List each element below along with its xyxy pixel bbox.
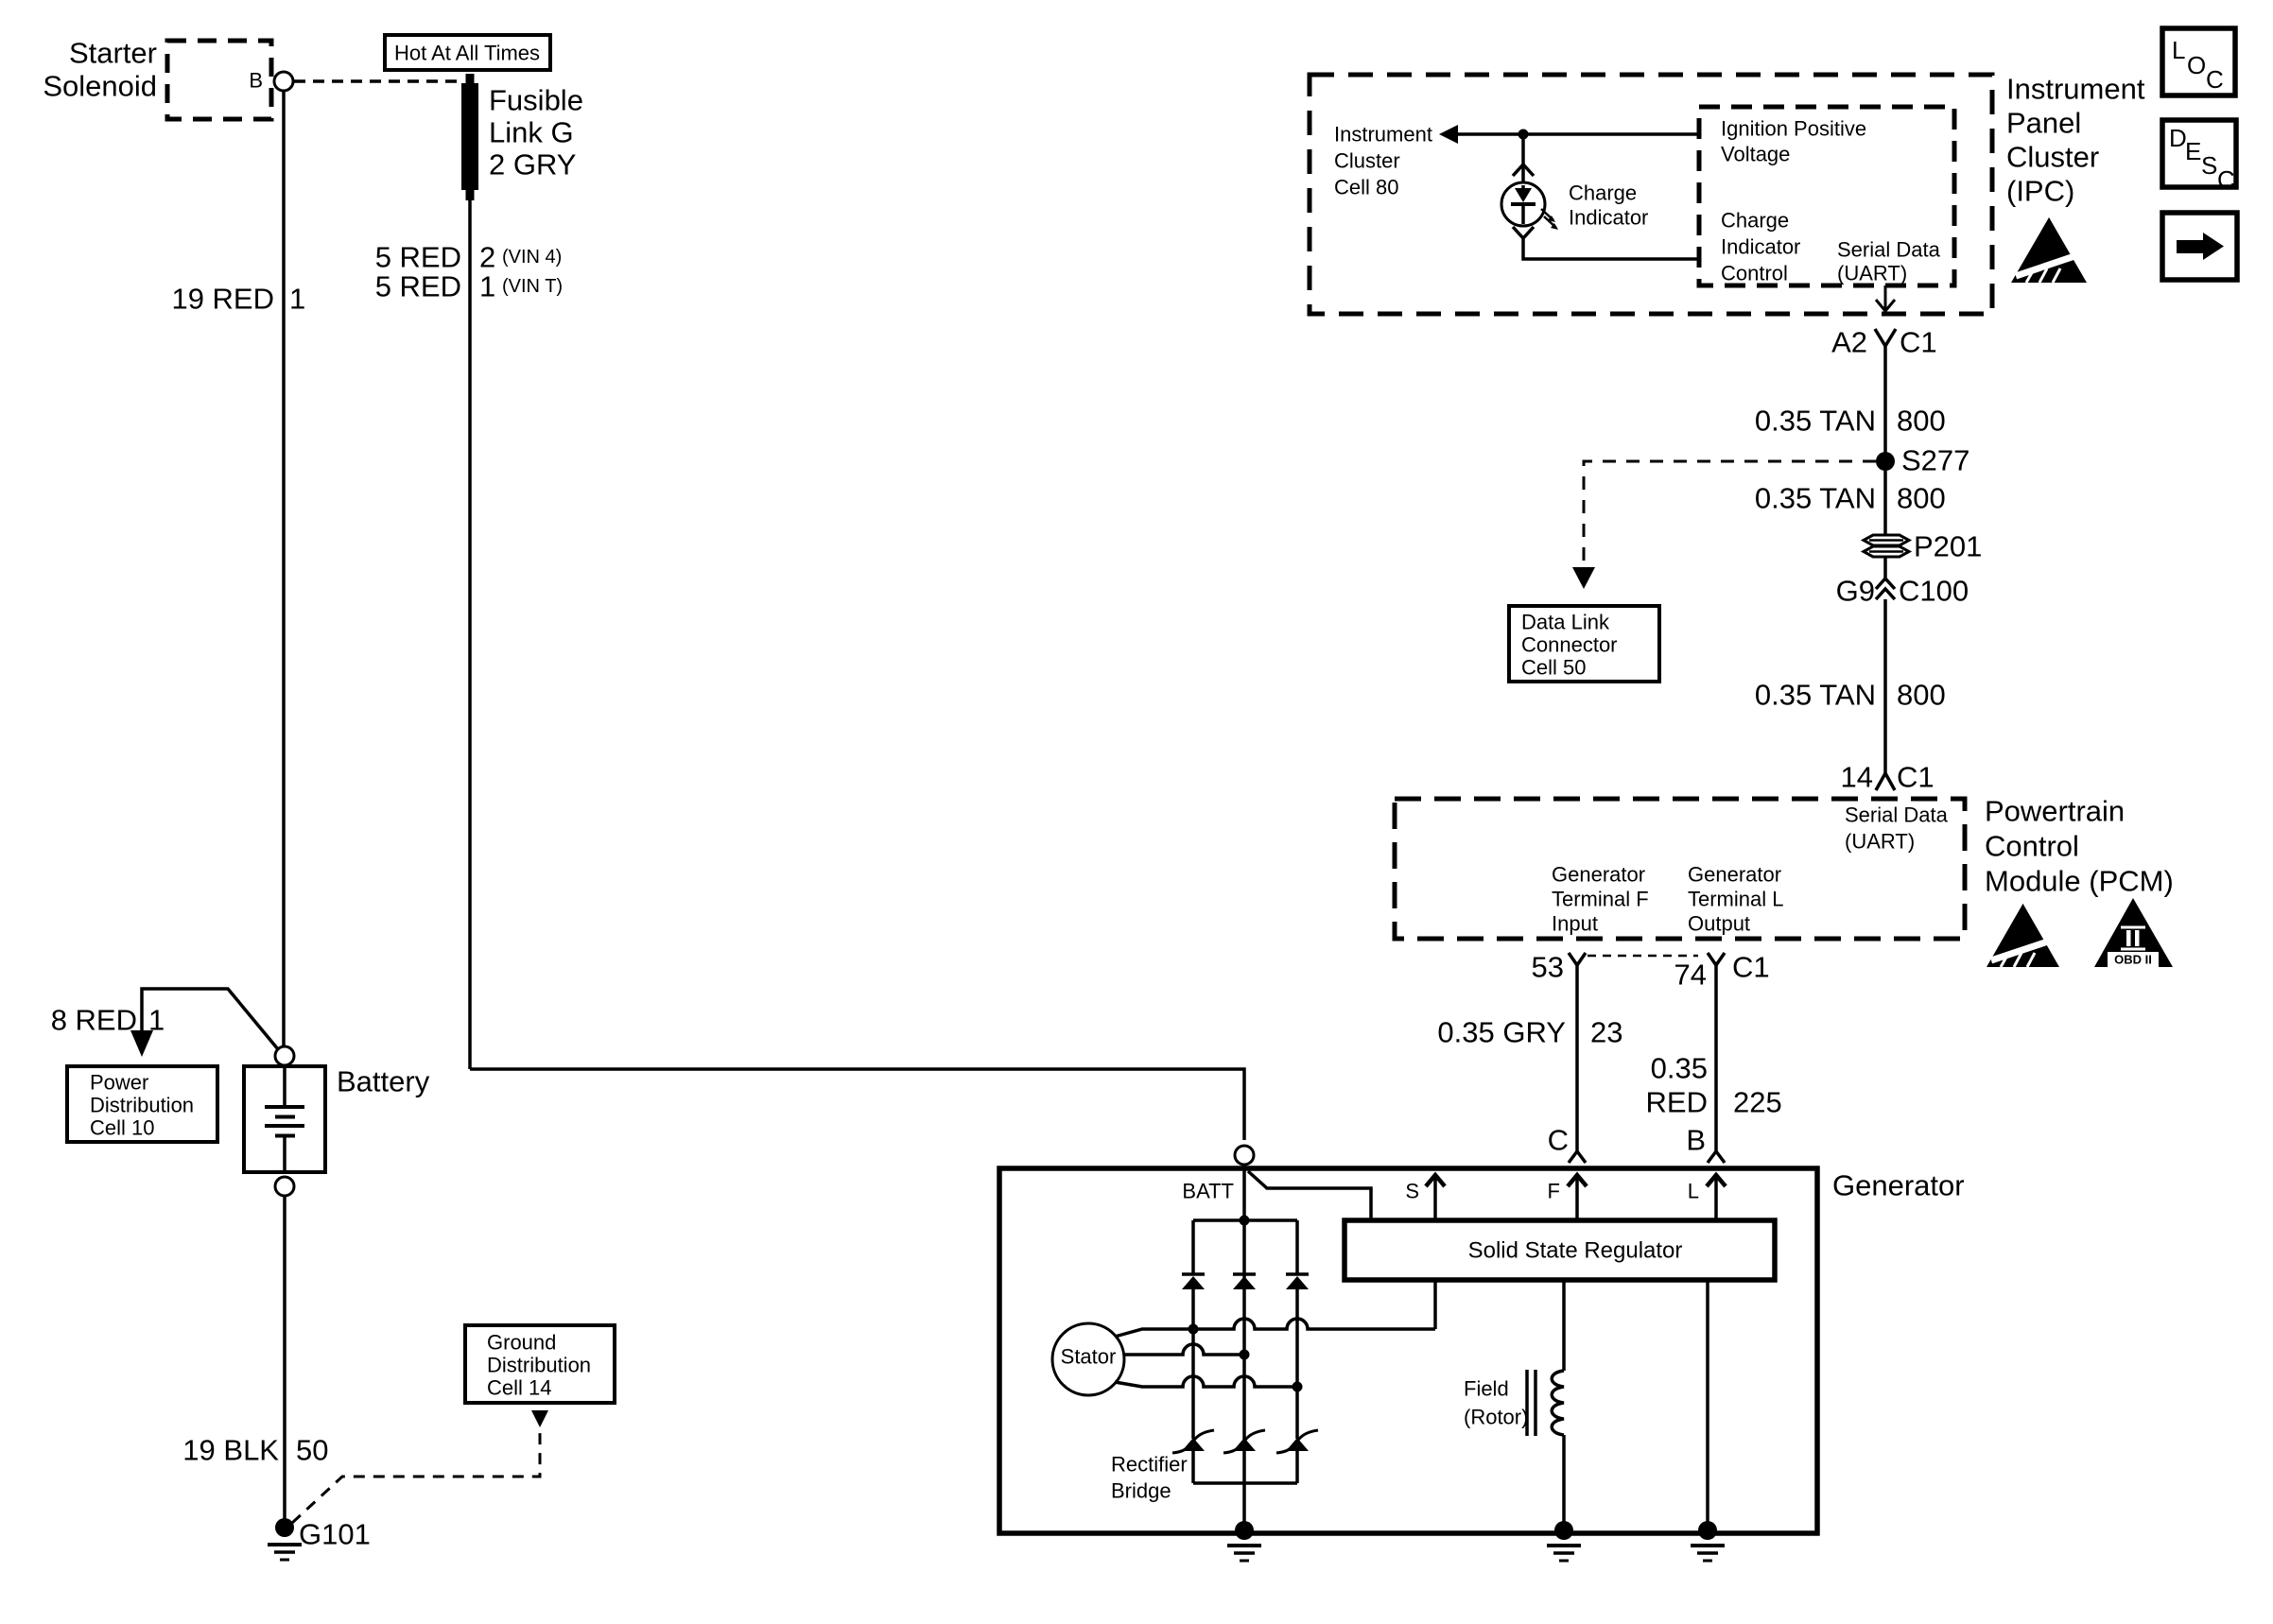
svg-text:Solenoid: Solenoid (43, 70, 157, 103)
LOC box (2162, 28, 2235, 95)
svg-text:A2: A2 (1831, 326, 1867, 359)
dashed connector body line C1 (1588, 955, 1698, 958)
label 53 (1532, 951, 1564, 984)
svg-text:Indicator: Indicator (1721, 235, 1800, 259)
arrow data link connector reference (1572, 567, 1595, 589)
svg-text:Distribution: Distribution (487, 1354, 591, 1377)
svg-text:Serial Data: Serial Data (1837, 238, 1941, 262)
svg-text:Charge: Charge (1721, 209, 1789, 233)
svg-text:S: S (2201, 151, 2217, 180)
wire F 0.35 GRY 23 (1575, 965, 1579, 1151)
svg-text:Ground: Ground (487, 1331, 556, 1355)
ground at field coil (1547, 1521, 1581, 1561)
svg-text:Cell 10: Cell 10 (90, 1116, 154, 1140)
svg-text:Rectifier: Rectifier (1111, 1453, 1188, 1477)
svg-text:5 RED: 5 RED (375, 241, 461, 274)
svg-text:(VIN T): (VIN T) (502, 276, 563, 297)
svg-text:Bridge: Bridge (1111, 1479, 1171, 1503)
dashed wire G101 to ground distribution (292, 1429, 540, 1523)
svg-text:C: C (2217, 165, 2235, 194)
svg-text:Output: Output (1688, 912, 1750, 936)
zener diode Z1 (1172, 1430, 1214, 1453)
svg-text:800: 800 (1897, 405, 1946, 438)
stator (1052, 1323, 1124, 1395)
connector G9 C100 (1876, 579, 1895, 599)
zener diode Z3 (1276, 1430, 1318, 1453)
label 74 C1 (1674, 951, 1770, 992)
junction dot BATT top bus (1240, 1216, 1250, 1226)
svg-text:Serial Data: Serial Data (1845, 803, 1949, 827)
svg-text:Panel: Panel (2006, 107, 2081, 140)
ESD symbol PCM (1987, 904, 2059, 967)
field rotor coil (1527, 1370, 1564, 1436)
ground at rectifier (1227, 1521, 1261, 1561)
terminal arrow S (1426, 1175, 1445, 1221)
svg-text:Field: Field (1464, 1377, 1509, 1401)
label Charge Indicator Control (1721, 209, 1800, 285)
svg-text:C: C (1548, 1124, 1569, 1157)
svg-text:D: D (2169, 124, 2187, 152)
terminal arrow F (1568, 1175, 1587, 1221)
next page arrow box (2162, 213, 2237, 280)
svg-text:225: 225 (1733, 1086, 1782, 1119)
S sense wire (1433, 1280, 1437, 1329)
label Ignition Positive Voltage (1721, 117, 1866, 166)
zener diode Z2 (1223, 1430, 1265, 1453)
svg-text:Link G: Link G (489, 116, 574, 149)
svg-text:Cluster: Cluster (2006, 141, 2099, 174)
svg-text:Module (PCM): Module (PCM) (1985, 865, 2174, 898)
arrow to instrument cluster (1439, 125, 1458, 144)
label 14 C1 (1841, 761, 1935, 794)
wire fusible link down (468, 199, 472, 1069)
label Fusible Link G 2 GRY (489, 84, 583, 181)
svg-text:B: B (1686, 1124, 1706, 1157)
wire junction to charge indicator (1521, 134, 1525, 181)
svg-text:C1: C1 (1897, 761, 1935, 794)
svg-text:O: O (2187, 51, 2206, 79)
label Generator Terminal F Input (1552, 863, 1649, 936)
svg-text:19 RED: 19 RED (171, 283, 274, 316)
svg-text:23: 23 (1590, 1016, 1622, 1049)
svg-text:Fusible: Fusible (489, 84, 583, 117)
splice S277 (1876, 452, 1895, 471)
svg-text:Terminal L: Terminal L (1688, 888, 1783, 911)
phase A wire (1115, 1319, 1435, 1337)
svg-text:RED: RED (1646, 1086, 1708, 1119)
label Generator (1832, 1169, 1965, 1202)
wire S277 to P201 (1883, 471, 1887, 535)
wire regulator to field coil (1562, 1280, 1566, 1371)
wire B to battery (282, 92, 286, 1045)
svg-text:B: B (249, 69, 263, 93)
svg-text:0.35 GRY: 0.35 GRY (1437, 1016, 1566, 1049)
svg-text:Terminal F: Terminal F (1552, 888, 1649, 911)
serial data exit arrow (1876, 285, 1895, 311)
battery positive terminal circle (275, 1046, 294, 1065)
svg-text:0.35 TAN: 0.35 TAN (1755, 482, 1876, 515)
svg-text:53: 53 (1532, 951, 1564, 984)
svg-text:Power: Power (90, 1071, 148, 1095)
svg-text:P201: P201 (1914, 530, 1982, 563)
svg-text:0.35 TAN: 0.35 TAN (1755, 405, 1876, 438)
ground G101 (268, 1518, 302, 1560)
label 0.35 RED 225 (1646, 1052, 1782, 1119)
wire 8 RED tap to power distribution (142, 989, 278, 1049)
svg-text:800: 800 (1897, 679, 1946, 712)
label G101 (299, 1518, 371, 1551)
label 19 RED 1 (171, 283, 305, 316)
IPC dashed box (1310, 75, 1992, 314)
connector C at generator F (1569, 1151, 1586, 1163)
svg-text:Generator: Generator (1832, 1169, 1965, 1202)
svg-text:C1: C1 (1900, 326, 1937, 359)
label F (1548, 1180, 1560, 1203)
generator BATT terminal circle (1235, 1146, 1254, 1165)
svg-text:Input: Input (1552, 912, 1598, 936)
svg-text:BATT: BATT (1182, 1180, 1234, 1203)
label Field (Rotor) (1464, 1377, 1528, 1429)
junction dot IPC (1518, 130, 1529, 140)
arrow into power distribution box (130, 1030, 153, 1057)
phase B wire (1124, 1344, 1244, 1355)
DESC box (2162, 120, 2236, 194)
svg-text:Data Link: Data Link (1521, 611, 1610, 634)
wire serial data A2 to S277 (1883, 346, 1887, 454)
svg-text:Battery: Battery (337, 1065, 430, 1098)
connector 74 C1 (Y) (1708, 953, 1725, 965)
svg-text:Distribution: Distribution (90, 1094, 194, 1117)
svg-text:Ignition Positive: Ignition Positive (1721, 117, 1866, 141)
label Charge Indicator (1569, 181, 1648, 230)
svg-text:Instrument: Instrument (2006, 73, 2145, 106)
svg-text:(Rotor): (Rotor) (1464, 1406, 1528, 1429)
label BATT (1182, 1180, 1234, 1203)
svg-text:L: L (2172, 36, 2185, 64)
svg-text:Indicator: Indicator (1569, 206, 1648, 230)
IPC inner connector dashed box (1699, 107, 1954, 285)
svg-text:Powertrain: Powertrain (1985, 795, 2125, 828)
wire P201 to C100 (1883, 557, 1887, 579)
svg-text:C100: C100 (1899, 575, 1969, 608)
diode D3 (1286, 1274, 1309, 1289)
svg-text:Instrument: Instrument (1334, 123, 1432, 147)
junction dot phase C (1293, 1382, 1303, 1392)
svg-text:G101: G101 (299, 1518, 371, 1551)
label Serial Data (UART) PCM (1845, 803, 1949, 854)
diode D1 (1182, 1274, 1205, 1289)
svg-text:1: 1 (479, 270, 495, 303)
svg-text:Cell 14: Cell 14 (487, 1376, 551, 1400)
battery negative terminal circle (275, 1177, 294, 1196)
svg-text:Charge: Charge (1569, 181, 1637, 205)
label S (1405, 1180, 1419, 1203)
terminal circle B (274, 72, 293, 91)
wire L 0.35 RED 225 (1714, 965, 1718, 1151)
svg-text:(UART): (UART) (1837, 262, 1907, 285)
svg-text:Hot At All Times: Hot At All Times (394, 42, 540, 65)
svg-text:OBD II: OBD II (2114, 953, 2152, 967)
svg-text:(UART): (UART) (1845, 830, 1915, 854)
terminal arrow L (1707, 1175, 1726, 1221)
wire battery to G101 (283, 1197, 286, 1522)
svg-text:800: 800 (1897, 482, 1946, 515)
wire C100 to PCM 14 (1883, 599, 1887, 773)
svg-text:Cell 80: Cell 80 (1334, 176, 1398, 199)
starter solenoid dashed box (167, 41, 271, 119)
rectifier left leg wire (1191, 1220, 1195, 1483)
Hot At All Times box (385, 35, 550, 70)
svg-text:F: F (1548, 1180, 1560, 1203)
phase C wire (1115, 1376, 1297, 1387)
svg-text:(VIN 4): (VIN 4) (502, 247, 562, 268)
ground at L (1691, 1521, 1725, 1561)
connector 14 C1 (1876, 773, 1895, 790)
connector P201 (1864, 535, 1909, 557)
ESD symbol IPC (2011, 217, 2087, 283)
solid state regulator box U1 (1345, 1220, 1775, 1280)
svg-text:C1: C1 (1732, 951, 1770, 984)
svg-text:Starter: Starter (69, 37, 157, 70)
label G9 C100 (1836, 575, 1969, 608)
wire field coil to ground (1562, 1435, 1566, 1528)
PCM dashed box (1395, 799, 1965, 939)
label P201 (1914, 530, 1982, 563)
svg-text:19 BLK: 19 BLK (182, 1434, 279, 1467)
svg-text:1: 1 (289, 283, 305, 316)
connector A2 C1 (1875, 329, 1896, 346)
label 5 RED 1 (VIN T) (375, 270, 563, 303)
label 8 RED 1 (51, 1004, 165, 1037)
svg-text:S277: S277 (1901, 444, 1969, 477)
svg-text:Generator: Generator (1552, 863, 1645, 887)
svg-text:Cell 50: Cell 50 (1521, 656, 1586, 680)
rectifier right leg wire (1295, 1220, 1299, 1483)
junction dot phase B (1240, 1350, 1250, 1360)
label Instrument Cluster Cell 80 (1334, 123, 1432, 199)
dashed wire B to fusible link (294, 79, 461, 83)
wire charge indicator to control (1523, 238, 1699, 259)
wire ignition positive voltage to instrument cluster (1454, 132, 1699, 136)
label Powertrain Control Module (PCM) (1985, 795, 2174, 898)
svg-text:2 GRY: 2 GRY (489, 148, 576, 181)
svg-text:0.35 TAN: 0.35 TAN (1755, 679, 1876, 712)
power distribution cell 10 box (67, 1066, 217, 1142)
label A2 C1 (1831, 326, 1937, 359)
label 0.35 GRY 23 (1437, 1016, 1622, 1049)
connector B at generator L (1708, 1151, 1725, 1163)
svg-text:Connector: Connector (1521, 633, 1618, 657)
svg-text:2: 2 (479, 241, 495, 274)
svg-text:8 RED: 8 RED (51, 1004, 137, 1037)
connector 53 (Y) (1569, 953, 1586, 965)
svg-text:0.35: 0.35 (1651, 1052, 1708, 1085)
label Rectifier Bridge (1111, 1453, 1188, 1503)
battery symbol (265, 1066, 304, 1172)
svg-text:1: 1 (148, 1004, 165, 1037)
data link connector cell 50 box (1509, 606, 1659, 682)
svg-text:E: E (2185, 137, 2201, 165)
wire BATT inside generator (1242, 1166, 1246, 1528)
svg-text:Generator: Generator (1688, 863, 1781, 887)
dashed wire S277 to data link connector (1584, 461, 1876, 566)
svg-text:S: S (1405, 1180, 1419, 1203)
generator box (999, 1168, 1817, 1533)
pin label B (249, 69, 263, 93)
svg-text:L: L (1688, 1180, 1699, 1203)
label 0.35 TAN 800 first (1755, 405, 1946, 438)
wire BATT to regulator (1248, 1171, 1371, 1221)
label Instrument Panel Cluster (IPC) (2006, 73, 2145, 208)
wire regulator L to ground (1706, 1280, 1709, 1528)
label Serial Data (UART) IPC (1837, 238, 1941, 285)
rectifier bottom bus (1193, 1481, 1297, 1485)
label L (1688, 1180, 1699, 1203)
junction dot phase A (1189, 1324, 1199, 1335)
svg-text:Control: Control (1721, 262, 1788, 285)
svg-text:Cluster: Cluster (1334, 149, 1400, 173)
label 0.35 TAN 800 second (1755, 482, 1946, 515)
svg-text:14: 14 (1841, 761, 1873, 794)
rectifier top bus (1193, 1218, 1297, 1222)
label B (1686, 1124, 1706, 1157)
svg-text:Solid State Regulator: Solid State Regulator (1468, 1238, 1683, 1264)
svg-text:50: 50 (296, 1434, 328, 1467)
label 19 BLK 50 (182, 1434, 328, 1467)
wire fusible link to generator BATT (470, 1069, 1244, 1140)
svg-text:5 RED: 5 RED (375, 270, 461, 303)
ground distribution cell 14 box (465, 1325, 615, 1403)
svg-text:74: 74 (1674, 959, 1707, 992)
OBD II symbol (2094, 898, 2173, 967)
battery box (244, 1066, 325, 1172)
label S277 (1901, 444, 1969, 477)
label Starter Solenoid (43, 37, 157, 103)
label Battery (337, 1065, 430, 1098)
label 0.35 TAN 800 third (1755, 679, 1946, 712)
svg-text:C: C (2206, 65, 2224, 94)
fusible link G (461, 74, 478, 200)
diode D2 (1233, 1274, 1256, 1289)
svg-text:(IPC): (IPC) (2006, 175, 2074, 208)
svg-text:G9: G9 (1836, 575, 1875, 608)
label 5 RED 2 (VIN 4) (375, 241, 563, 274)
svg-text:Voltage: Voltage (1721, 143, 1790, 166)
svg-text:Control: Control (1985, 830, 2079, 863)
label C (1548, 1124, 1569, 1157)
charge indicator LED (1501, 164, 1558, 238)
svg-text:Stator: Stator (1061, 1345, 1117, 1369)
label Generator Terminal L Output (1688, 863, 1783, 936)
arrow ground distribution reference (531, 1410, 548, 1427)
